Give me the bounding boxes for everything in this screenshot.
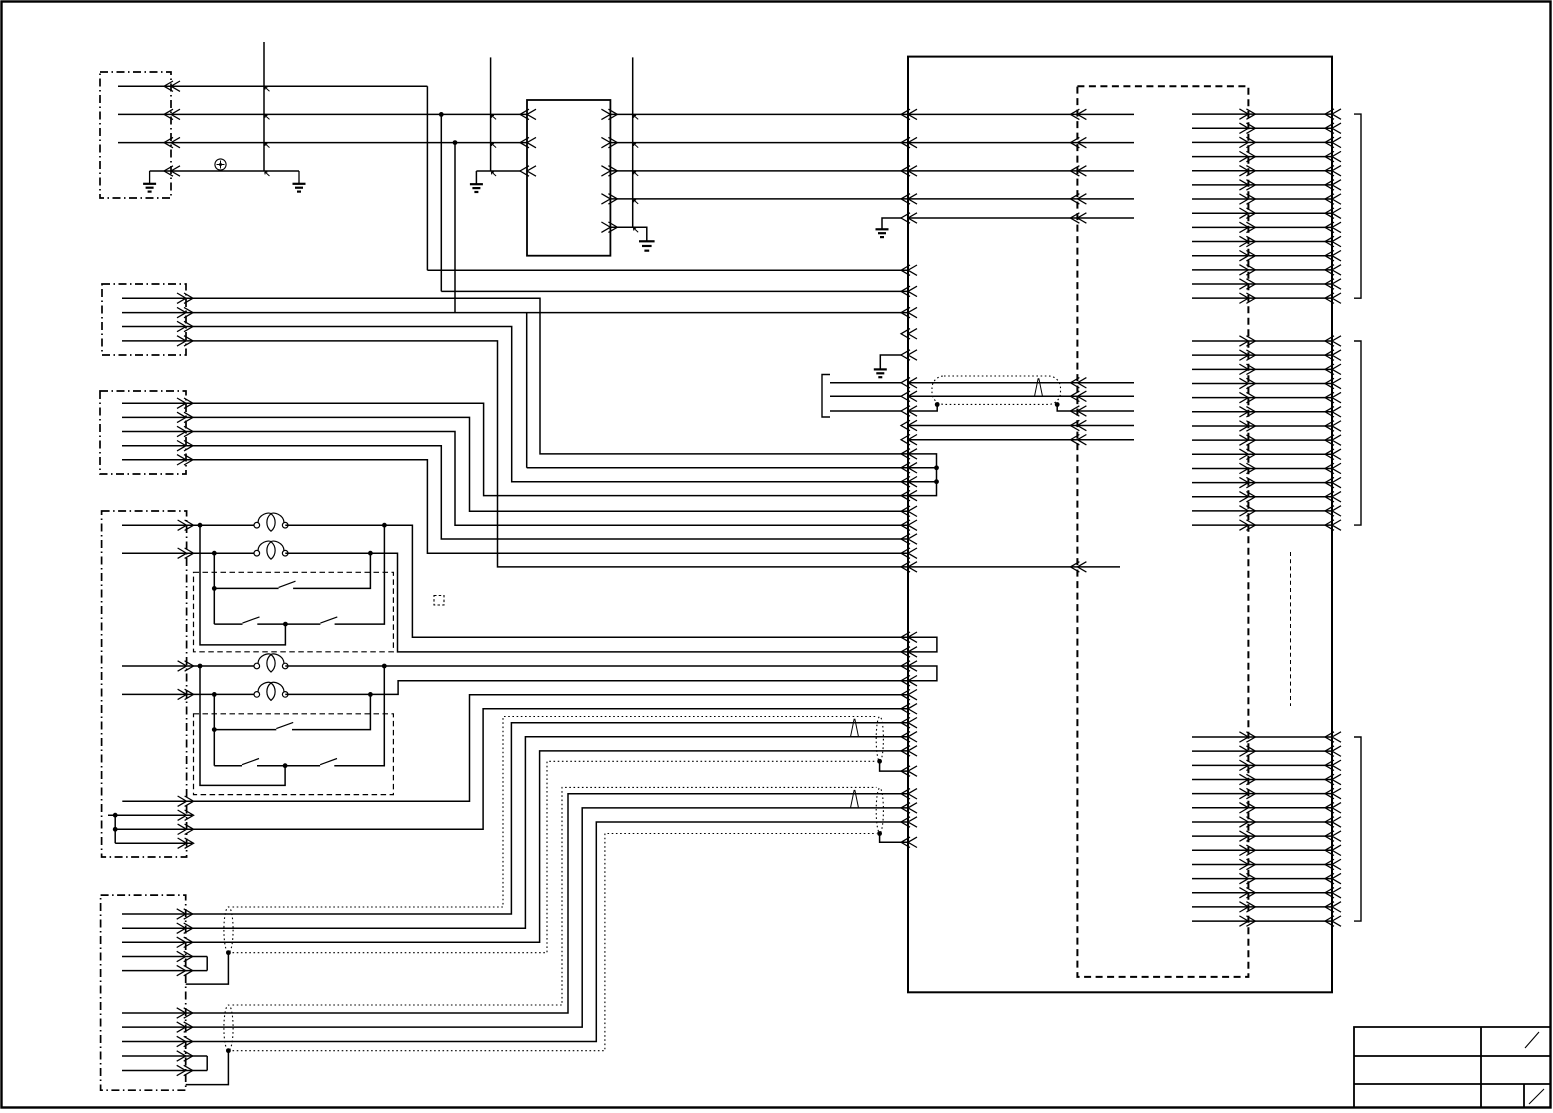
arrow FL1 out5 — [601, 222, 617, 232]
shield tube 2 bottom — [233, 834, 877, 1051]
pin U1-L3 arrow — [901, 166, 917, 176]
junction CN1-3 tap — [453, 140, 458, 145]
ground G4 — [639, 240, 655, 242]
wire AI1 — [1192, 736, 1332, 738]
arrow AI14 out — [1239, 916, 1255, 926]
arrow CN4-8 — [178, 838, 194, 848]
arrow CN3-3 — [177, 426, 193, 436]
ground stem left of CN1-4 — [149, 171, 151, 184]
wire DO5 — [1192, 170, 1332, 172]
pin sig567 inner wire — [908, 566, 1120, 568]
arrow DI12 in — [1325, 492, 1341, 502]
arrow CN1-3 — [164, 137, 180, 147]
pin U1-M5 arrow — [901, 350, 917, 360]
wire AI7 — [1192, 821, 1332, 823]
pin U1 an807 arrow — [901, 803, 917, 813]
arrow AI7 in — [1325, 817, 1341, 827]
arrow DO6 in — [1325, 180, 1341, 190]
spike shield1 — [851, 719, 859, 737]
switch S3a blade — [276, 722, 293, 728]
junction CN4-7 — [113, 827, 118, 832]
arrow CN6-7 — [177, 1022, 193, 1032]
wire DO4 — [1192, 156, 1332, 158]
pin A1-L4 arrow — [1070, 194, 1086, 204]
junction T4 out — [368, 692, 373, 697]
filter output wire 3 — [610, 170, 908, 172]
arrow DI8 in — [1325, 435, 1341, 445]
wire CN4-4 b — [285, 681, 908, 695]
switch S2b blade — [320, 617, 337, 623]
CT T2 — [254, 550, 260, 556]
arrow AI9 out — [1239, 845, 1255, 855]
arrow AI7 out — [1239, 817, 1255, 827]
wire CN3-5 — [122, 460, 908, 553]
arrow DI1 in — [1325, 336, 1341, 346]
wire AI13 — [1192, 906, 1332, 908]
arrow DI14 in — [1325, 520, 1341, 530]
arrow DI10 in — [1325, 463, 1341, 473]
arrow CN6-6 — [177, 1008, 193, 1018]
arrow DO5 out — [1239, 166, 1255, 176]
wire CN2-1 — [122, 298, 908, 454]
arrow CN4-7 — [178, 824, 194, 834]
connector CN1 box — [100, 72, 171, 198]
pin U1 an736 arrow — [901, 732, 917, 742]
wire DO6 — [1192, 184, 1332, 186]
arrow AI6 in — [1325, 803, 1341, 813]
arrow CN4-1 — [178, 520, 194, 530]
CT T4 — [254, 692, 260, 698]
wire CN1-2 — [118, 113, 527, 115]
wire CN1-3 — [118, 142, 527, 144]
wire DO1 — [1192, 113, 1332, 115]
wire CN6-8 — [122, 822, 908, 1042]
arrow CN4-5 — [178, 796, 194, 806]
arrow CN4-3 — [178, 661, 194, 671]
wire CN4-2 a — [122, 552, 257, 554]
filter output wire 5 — [610, 227, 646, 241]
arrow AI13 in — [1325, 902, 1341, 912]
pin U1 ct666 arrow — [901, 661, 917, 671]
arrow DO12 in — [1325, 265, 1341, 275]
CT T1 — [254, 522, 260, 528]
arrow AI5 in — [1325, 788, 1341, 798]
wire AI5 — [1192, 793, 1332, 795]
arrow DO7 out — [1239, 194, 1255, 204]
shield capsule SH0 — [932, 376, 1061, 404]
arrow DI9 out — [1239, 449, 1255, 459]
jumper U-loop 2 — [908, 666, 937, 681]
wire DO14 — [1192, 297, 1332, 299]
filter output wire 2 — [610, 142, 908, 144]
wire CN2-2 — [122, 312, 908, 314]
junction shieldB — [226, 1048, 231, 1053]
arrow AI4 in — [1325, 774, 1341, 784]
connector CN4 box — [102, 511, 187, 857]
pin U1 sig482 arrow — [901, 477, 917, 487]
title block table — [1354, 1027, 1550, 1107]
tick V3 row3 — [634, 172, 639, 176]
arrow CN6-5 — [177, 965, 193, 975]
junction CN1-2 tap — [439, 112, 444, 117]
tick V1-w4 — [265, 172, 270, 176]
pin U1 sig553 arrow — [901, 548, 917, 558]
switch S4a blade — [242, 759, 259, 765]
wire data- stub — [830, 395, 901, 397]
arrow DI6 in — [1325, 407, 1341, 417]
filter input ground wire — [476, 170, 521, 172]
wire shield inner left — [908, 405, 937, 412]
pin A1 io425 arrow — [1070, 420, 1086, 430]
arrow DI4 in — [1325, 378, 1341, 388]
wire CN6-4 — [122, 956, 207, 958]
arrow DO4 in — [1325, 151, 1341, 161]
pin A1 sig567 arrow — [1070, 562, 1086, 572]
junction bus 482 — [934, 479, 939, 484]
arrow DO5 in — [1325, 166, 1341, 176]
arrow DO11 in — [1325, 251, 1341, 261]
pin U1 ct637 arrow — [901, 632, 917, 642]
switch S3a wire — [214, 729, 276, 731]
junction SH0 left — [935, 402, 940, 407]
switch S2a wire — [214, 623, 242, 625]
arrow CN6-8 — [177, 1036, 193, 1046]
switch box SB2 — [194, 714, 394, 795]
wire AI6 — [1192, 807, 1332, 809]
inner module dashed box A1 — [1077, 86, 1248, 977]
wire CN3-4 — [122, 446, 908, 539]
arrow DO4 out — [1239, 151, 1255, 161]
arrow AI10 out — [1239, 859, 1255, 869]
wire SB2 feed — [213, 694, 215, 765]
pin U1-L5 inner wire — [908, 217, 1134, 219]
ground G1 — [143, 183, 156, 185]
arrow DO13 out — [1239, 279, 1255, 289]
pin U1-L2 arrow — [901, 137, 917, 147]
wire SB1 return — [200, 525, 285, 645]
filter box FL1 — [527, 100, 610, 256]
pin U1-M2 arrow — [901, 286, 917, 296]
arrow AI5 out — [1239, 788, 1255, 798]
wire CN6-10 — [122, 1070, 207, 1072]
wire DO11 — [1192, 255, 1332, 257]
wire CN2-3 — [122, 327, 908, 482]
wire data+ inner — [908, 382, 1134, 384]
wire CN3-3 — [122, 432, 908, 526]
arrow DO13 in — [1325, 279, 1341, 289]
wire CN1-4 shield — [150, 170, 299, 172]
arrow AI3 in — [1325, 760, 1341, 770]
wire CN4 link — [114, 815, 116, 843]
wire AI4 — [1192, 778, 1332, 780]
junction CN4-6 — [113, 813, 118, 818]
arrow DI13 out — [1239, 506, 1255, 516]
filter output wire 1 — [610, 113, 908, 115]
inner bus wire — [908, 454, 937, 496]
shield tube 2 top — [233, 787, 877, 1005]
tick V3 row1 — [634, 115, 639, 119]
switch S1a out — [293, 553, 370, 588]
arrow DO9 out — [1239, 222, 1255, 232]
wire CN3-2 — [122, 417, 908, 511]
pin U1 ct681 arrow — [901, 676, 917, 686]
arrow CN1-1 — [164, 81, 180, 91]
spike SH0 — [1035, 379, 1043, 397]
junction SB2 row1 — [212, 727, 217, 732]
junction shield1 drain — [877, 759, 882, 764]
junction SB2 row2 — [283, 763, 288, 768]
shield oval A — [224, 907, 233, 953]
arrow AI12 out — [1239, 888, 1255, 898]
ground G2 — [293, 183, 306, 185]
arrow DI3 in — [1325, 364, 1341, 374]
pin U1-M4 arrow — [901, 329, 917, 339]
main unit box U1 — [908, 57, 1332, 993]
wire CN6-2 — [122, 737, 908, 928]
arrow AI11 out — [1239, 873, 1255, 883]
connector CN6 box — [101, 895, 186, 1090]
arrow DO10 out — [1239, 236, 1255, 246]
wire DO3 — [1192, 141, 1332, 143]
arrow DI5 in — [1325, 392, 1341, 402]
pin U1 shd842 arrow — [901, 837, 917, 847]
arrow DI7 in — [1325, 421, 1341, 431]
pin U1-M5 ground stub — [880, 355, 902, 369]
arrow DO14 out — [1239, 293, 1255, 303]
switch S4b blade — [320, 759, 337, 765]
wire CN4-2 b — [285, 553, 908, 652]
arrow AI1 out — [1239, 732, 1255, 742]
arrow DO11 out — [1239, 251, 1255, 261]
spike shield2 — [851, 790, 859, 808]
arrow CN3-2 — [177, 412, 193, 422]
pin U1-L4 inner wire — [908, 198, 1134, 200]
arrow CN2-4 — [177, 336, 193, 346]
tick V1-w3 — [265, 143, 270, 147]
wire CN6-3 — [122, 751, 908, 942]
arrow DI2 out — [1239, 350, 1255, 360]
wire AI14 — [1192, 920, 1332, 922]
wire DI3 — [1192, 368, 1332, 370]
fold mark dashed segment — [1290, 552, 1292, 706]
switch S2b out — [335, 525, 385, 624]
wire CN6-5 — [122, 970, 207, 972]
pin U1-L3 inner wire — [908, 170, 1134, 172]
arrow AI14 in — [1325, 916, 1341, 926]
connector CN3 box — [100, 391, 186, 474]
pin U1 sig525 arrow — [901, 520, 917, 530]
wire data- inner — [908, 395, 1134, 397]
wire AI9 — [1192, 849, 1332, 851]
wire CN6 tie B — [206, 1056, 208, 1071]
ground G5 — [876, 228, 889, 230]
pin U1 an722 arrow — [901, 718, 917, 728]
wire DO7 — [1192, 198, 1332, 200]
arrow DO3 out — [1239, 137, 1255, 147]
arrow FL1 out2 — [601, 137, 617, 147]
wire DO9 — [1192, 226, 1332, 228]
arrow DO8 in — [1325, 208, 1341, 218]
arrow CN2-3 — [177, 321, 193, 331]
switch S4a mid — [257, 765, 320, 767]
arrow DO12 out — [1239, 265, 1255, 275]
pin A1-L5 arrow — [1070, 213, 1086, 223]
arrow DI2 in — [1325, 350, 1341, 360]
tick V1-w2 — [265, 115, 270, 119]
wire CN2-4 — [122, 341, 908, 567]
tick V2-w3 — [491, 143, 496, 147]
small dashed square marker — [434, 596, 444, 606]
arrow CN3-4 — [177, 441, 193, 451]
shield tube 1 bottom — [233, 761, 877, 952]
junction CN4-3 — [198, 664, 203, 669]
arrow CN1-4 — [164, 166, 180, 176]
ground stem right of CN1-4 — [298, 171, 300, 184]
arrow AI2 in — [1325, 746, 1341, 756]
inner bus stub 468 — [908, 467, 937, 469]
wire CN3-1 — [122, 403, 908, 495]
junction T3 out — [382, 664, 387, 669]
arrow DI11 out — [1239, 477, 1255, 487]
ground G3 — [470, 183, 483, 185]
pin A1-L2 arrow — [1070, 137, 1086, 147]
protective earth symbol — [215, 159, 226, 170]
filter output wire 4 — [610, 198, 908, 200]
arrow DO14 in — [1325, 293, 1341, 303]
junction SB1 row2 — [283, 622, 288, 627]
wire AI3 — [1192, 764, 1332, 766]
arrow DI13 in — [1325, 506, 1341, 516]
arrow DO3 in — [1325, 137, 1341, 147]
arrow DO1 in — [1325, 109, 1341, 119]
wire AI12 — [1192, 892, 1332, 894]
wire CN4-3 b — [285, 665, 908, 667]
wire CN4-1 b — [285, 525, 908, 637]
wire AI11 — [1192, 878, 1332, 880]
arrow DO2 in — [1325, 123, 1341, 133]
shield oval B — [224, 1005, 233, 1051]
bracket AI — [1354, 737, 1361, 921]
wire CN4-1 a — [122, 524, 257, 526]
junction bus 468 — [934, 465, 939, 470]
wire CN6 tie A — [206, 957, 208, 971]
wire shield2 drain — [880, 834, 908, 843]
junction T1 out — [382, 523, 387, 528]
junction shield2 drain — [877, 831, 882, 836]
wire net3 vertical — [454, 143, 456, 313]
arrow CN4-2 — [178, 548, 194, 558]
wire DI1 — [1192, 340, 1332, 342]
junction SB1 row1 — [212, 586, 217, 591]
pin U1-L2 inner wire — [908, 142, 1134, 144]
pin U1 an793 arrow — [901, 789, 917, 799]
arrow CN2-2 — [177, 307, 193, 317]
wire DO8 — [1192, 212, 1332, 214]
arrow DI9 in — [1325, 449, 1341, 459]
switch S1a blade — [279, 581, 296, 587]
pin U1 sig539 arrow — [901, 534, 917, 544]
arrow CN6-2 — [177, 923, 193, 933]
arrow DI10 out — [1239, 463, 1255, 473]
tick V1-w1 — [265, 87, 270, 91]
arrow FL1 in1 — [520, 109, 536, 119]
wire CN6-6 — [122, 794, 908, 1013]
pin U1 ct652 arrow — [901, 647, 917, 657]
pin U1 aux695 arrow — [901, 690, 917, 700]
switch box SB1 — [194, 572, 394, 652]
wire CN1-1 — [118, 85, 427, 87]
arrow DI11 in — [1325, 477, 1341, 487]
wire net1 vertical — [426, 86, 428, 270]
arrow AI4 out — [1239, 774, 1255, 784]
arrow CN6-3 — [177, 937, 193, 947]
wire DI9 — [1192, 453, 1332, 455]
arrow CN6-1 — [177, 909, 193, 919]
wire CN4-3 a — [122, 665, 257, 667]
shield tube 1 end cap — [876, 717, 883, 762]
arrow CN1-2 — [164, 109, 180, 119]
arrow AI8 in — [1325, 831, 1341, 841]
wire DI8 — [1192, 439, 1332, 441]
arrow A1 data- — [1070, 391, 1086, 401]
tick V3 row2 — [634, 143, 639, 147]
wire shield1 drain — [880, 761, 908, 771]
wire shield stub — [830, 410, 901, 412]
arrow DI12 out — [1239, 492, 1255, 502]
switch S2a blade — [243, 617, 260, 623]
pin A1-L1 arrow — [1070, 109, 1086, 119]
pin A1-L3 arrow — [1070, 166, 1086, 176]
pin U1 shield arrow — [901, 406, 917, 416]
junction CN4-1 — [198, 523, 203, 528]
wire net2 vertical — [440, 114, 442, 291]
arrow CN3-1 — [177, 398, 193, 408]
pin U1 sig454 arrow — [901, 449, 917, 459]
pin U1 aux709 arrow — [901, 704, 917, 714]
arrow DI1 out — [1239, 336, 1255, 346]
wire AI2 — [1192, 750, 1332, 752]
wire DO2 — [1192, 127, 1332, 129]
pin U1-L1 inner wire — [908, 113, 1134, 115]
wire data+ stub — [830, 382, 901, 384]
arrow DO6 out — [1239, 180, 1255, 190]
wire DO12 — [1192, 269, 1332, 271]
wire CN4-4 a — [122, 693, 257, 695]
arrow DI3 out — [1239, 364, 1255, 374]
wire SB1 feed — [213, 553, 215, 624]
shield tube 1 top — [233, 717, 877, 908]
wire DI2 — [1192, 354, 1332, 356]
arrow AI10 in — [1325, 859, 1341, 869]
tick V3 row5 — [634, 228, 639, 232]
pin U1 shd771 arrow — [901, 766, 917, 776]
arrow CN6-9 — [177, 1051, 193, 1061]
wire CN6-1 — [122, 723, 908, 914]
arrow AI13 out — [1239, 902, 1255, 912]
arrow AI11 in — [1325, 873, 1341, 883]
wire CN4-5 — [122, 695, 908, 802]
wire shieldB drain — [186, 1051, 229, 1085]
wire AI8 — [1192, 835, 1332, 837]
pin U1-M3 arrow — [901, 307, 917, 317]
switch S3a out — [292, 694, 370, 729]
CT T3 — [254, 663, 260, 669]
arrow AI12 in — [1325, 888, 1341, 898]
switch S4a wire — [214, 765, 242, 767]
arrow CN3-5 — [177, 455, 193, 465]
arrow CN6-10 — [177, 1065, 193, 1075]
pin U1 sig496 arrow — [901, 490, 917, 500]
